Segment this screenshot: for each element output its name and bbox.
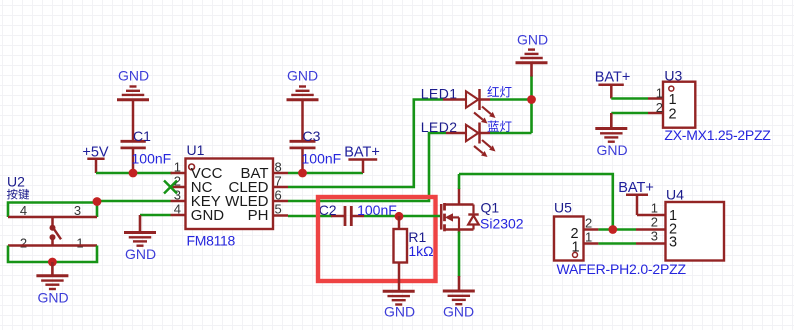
U1 pin1 marker circle xyxy=(189,164,195,170)
svg-text:U5: U5 xyxy=(554,200,572,216)
U1 pin name GND xyxy=(191,207,225,224)
svg-text:4: 4 xyxy=(174,202,181,217)
power port BAT+ label (U4) xyxy=(618,180,654,196)
svg-text:1: 1 xyxy=(656,86,663,101)
ground symbol at U1 pin4 xyxy=(124,233,156,246)
svg-text:BAT+: BAT+ xyxy=(595,70,631,86)
U3 inside pin number 2 xyxy=(669,107,677,123)
net label GND at U3 xyxy=(596,142,627,158)
ground symbol at U3 xyxy=(595,129,627,142)
ground symbol above C1 (flipped) xyxy=(117,87,149,100)
net label GND below U2 xyxy=(37,290,68,306)
U1 designator text xyxy=(187,142,205,158)
wire U2 bottom loop pins 2-1 xyxy=(8,246,97,263)
U1 pin number 7 xyxy=(275,174,282,189)
svg-text:3: 3 xyxy=(669,235,677,251)
U1 pin name PH xyxy=(248,207,269,224)
connector U5 name WAFER-PH2.0-2PZZ xyxy=(557,261,687,277)
net label GND below Q1 xyxy=(443,304,474,320)
U4 pin number 3 label xyxy=(651,229,658,244)
U4 inside pin number 1 xyxy=(669,208,677,224)
U2 pin number 4 xyxy=(20,203,27,218)
U1 pin number 5 xyxy=(275,202,282,217)
U2 name text 按键 xyxy=(7,189,29,200)
R1 designator text xyxy=(408,229,426,245)
U1 part name FM8118 xyxy=(187,233,236,249)
junction C1 on +5V wire xyxy=(129,169,138,178)
svg-text:4: 4 xyxy=(20,203,27,218)
svg-text:PH: PH xyxy=(248,207,269,224)
power port BAT+ label (U3) xyxy=(595,70,631,86)
svg-text:C3: C3 xyxy=(303,128,321,144)
C3 value 100nF xyxy=(302,151,342,167)
U1 pin number 4 xyxy=(174,202,181,217)
connector U4 body xyxy=(666,202,725,261)
wire U1 BAT pin 8 to BAT+ port xyxy=(288,172,363,175)
U4 pin 3 stub xyxy=(636,242,666,245)
svg-text:1: 1 xyxy=(669,92,677,108)
svg-text:1: 1 xyxy=(174,160,181,175)
U1 pin 5 stub xyxy=(273,214,288,217)
U1 pin number 8 xyxy=(275,160,282,175)
U1 pin name WLED xyxy=(225,193,269,210)
C1 designator text xyxy=(133,128,151,144)
net label GND above C3 xyxy=(287,68,318,84)
junction R1 top node xyxy=(395,212,404,221)
U4 pin number 1 label xyxy=(651,201,658,216)
svg-text:5: 5 xyxy=(275,202,282,217)
U5 pin 2 stub xyxy=(584,228,599,231)
U4 designator text xyxy=(666,187,684,203)
C2 value 100nF xyxy=(357,202,397,218)
LED LED2 designator text xyxy=(421,119,458,135)
U1 pin name KEY xyxy=(191,193,221,210)
svg-text:2: 2 xyxy=(651,215,658,230)
power port BAT+ bar (U1) xyxy=(348,160,377,174)
svg-text:2: 2 xyxy=(656,100,663,115)
U3 pin 1 stub xyxy=(648,97,663,100)
svg-text:7: 7 xyxy=(275,174,282,189)
net label GND above C1 xyxy=(118,68,149,84)
wire Q1 source to ground xyxy=(458,232,461,278)
svg-text:GND: GND xyxy=(118,68,149,84)
U1 pin 2 stub xyxy=(171,186,186,189)
capacitor C3 xyxy=(290,100,316,174)
svg-text:Si2302: Si2302 xyxy=(480,216,524,232)
svg-text:2: 2 xyxy=(20,236,27,251)
U1 pin name CLED xyxy=(228,179,268,196)
ground symbol below R1 xyxy=(383,291,415,304)
capacitor C1 xyxy=(121,100,146,174)
power port +5V label xyxy=(82,145,109,161)
ground symbol below U2 xyxy=(36,276,68,289)
svg-text:1: 1 xyxy=(76,236,83,251)
U1 pin number 3 xyxy=(174,188,181,203)
ground stem at U1 pin4 xyxy=(139,215,142,233)
wire U1 CLED pin 7 to LED1 xyxy=(288,100,443,188)
U3 pin number 1 label xyxy=(656,86,663,101)
transistor Q1 Si2302 xyxy=(441,188,479,233)
wire U2 to ground stem xyxy=(51,262,54,276)
svg-text:3: 3 xyxy=(74,203,81,218)
ground stem below Q1 xyxy=(458,276,461,291)
capacitor C2 xyxy=(331,206,364,226)
component U2 designator text xyxy=(7,174,25,190)
wire U5 pin1 to U4 pin3 xyxy=(598,242,636,245)
no-connect X on U1 pin 2 xyxy=(164,181,177,194)
U2 pin number 3 xyxy=(74,203,81,218)
U1 pin 7 stub xyxy=(273,186,288,189)
U1 pin 1 stub xyxy=(171,172,186,175)
svg-text:1: 1 xyxy=(585,230,592,245)
svg-text:100nF: 100nF xyxy=(302,151,342,167)
U5 pin number 2 label xyxy=(585,216,592,231)
U2 pin number 2 xyxy=(20,236,27,251)
junction connector node xyxy=(608,225,617,234)
U3 pin number 2 label xyxy=(656,100,663,115)
wire U1 WLED pin 6 to LED2 xyxy=(288,133,446,201)
svg-text:U4: U4 xyxy=(666,187,684,203)
ground stem at U3 xyxy=(610,113,613,129)
Q1 designator text xyxy=(481,200,500,216)
U5 pin 1 stub xyxy=(584,242,599,245)
svg-text:WAFER-PH2.0-2PZZ: WAFER-PH2.0-2PZZ xyxy=(557,261,687,277)
wire U1 PH pin 5 to C2 xyxy=(288,215,332,218)
svg-text:2: 2 xyxy=(669,107,677,123)
svg-text:2: 2 xyxy=(585,216,592,231)
C2 designator text xyxy=(319,202,337,218)
U1 pin 3 stub xyxy=(171,200,186,203)
U1 pin name BAT xyxy=(240,165,268,182)
U3 pin 2 stub xyxy=(648,112,663,115)
svg-text:GND: GND xyxy=(191,207,225,224)
U2 pin bar pins 4-3 xyxy=(8,216,97,219)
wire U2 top loop pins 4-3 xyxy=(8,203,97,218)
svg-text:Q1: Q1 xyxy=(481,200,500,216)
U5 inside pin number 1 xyxy=(572,240,580,256)
U1 pin number 1 xyxy=(174,160,181,175)
net label 红灯 xyxy=(487,86,511,98)
net label GND below R1 xyxy=(384,304,415,320)
wire LED2 cathode to GND node xyxy=(490,132,532,135)
U4 pin 2 stub xyxy=(636,228,666,231)
LED LED1 designator text xyxy=(421,86,458,102)
svg-text:1: 1 xyxy=(651,201,658,216)
U1 pin 4 stub xyxy=(171,214,186,217)
U2 pin bar pins 2-1 xyxy=(8,244,97,247)
power port BAT+ bar (U4) xyxy=(626,195,666,215)
svg-text:GND: GND xyxy=(517,32,548,48)
U3 pin1 marker circle xyxy=(669,86,674,91)
wire U5 pin2 to junction xyxy=(598,228,636,231)
R1 value 1kΩ xyxy=(408,243,433,259)
junction U2 bottom to GND xyxy=(48,258,57,267)
connector U3 name ZX-MX1.25-2PZZ xyxy=(664,127,771,143)
svg-text:U2: U2 xyxy=(7,174,25,190)
power port +5V bar xyxy=(87,159,104,173)
svg-text:GND: GND xyxy=(287,68,318,84)
svg-text:8: 8 xyxy=(275,160,282,175)
junction C3 on BAT wire xyxy=(298,169,307,178)
wire U1 GND pin 4 to ground xyxy=(140,214,171,217)
svg-text:GND: GND xyxy=(596,142,627,158)
U1 pin number 2 xyxy=(174,174,181,189)
svg-text:FM8118: FM8118 xyxy=(187,233,236,249)
net label GND above LEDs xyxy=(517,32,548,48)
junction LED cathodes xyxy=(527,95,536,104)
junction U2 pin3 to KEY net xyxy=(93,197,102,206)
U1 pin name VCC xyxy=(191,165,223,182)
diode LED2 xyxy=(446,123,490,144)
LED1 emission arrows xyxy=(474,107,496,124)
wire U2 top corner riser xyxy=(96,201,99,204)
U2 switch mechanism xyxy=(50,217,62,246)
U4 pin number 2 label xyxy=(651,215,658,230)
wire C2 to Q1 gate xyxy=(364,215,442,218)
Q1 part name Si2302 xyxy=(480,216,524,232)
ground stem above LEDs xyxy=(530,63,533,77)
wire U3 pin2 to GND xyxy=(611,112,648,115)
connector U3 body xyxy=(663,82,695,128)
svg-text:GND: GND xyxy=(125,246,156,262)
svg-text:C1: C1 xyxy=(133,128,151,144)
U5 pin number 1 label xyxy=(585,230,592,245)
wire Q1 drain to connector node xyxy=(459,174,613,230)
wire Q1 drain riser xyxy=(458,174,461,189)
U4 inside pin number 3 xyxy=(669,235,677,251)
LED2 emission arrows xyxy=(474,140,496,157)
U4 inside pin number 2 xyxy=(669,222,677,238)
C1 value 100nF xyxy=(132,151,172,167)
svg-text:1kΩ: 1kΩ xyxy=(408,243,433,259)
selection highlight rectangle xyxy=(318,197,436,281)
resistor R1 xyxy=(394,216,408,292)
ground symbol above C3 (flipped) xyxy=(287,87,319,100)
U1 pin number 6 xyxy=(275,188,282,203)
diode LED1 xyxy=(443,89,490,110)
net label GND at U1 pin4 xyxy=(125,246,156,262)
svg-text:100nF: 100nF xyxy=(132,151,172,167)
power port BAT+ label (U1) xyxy=(344,145,380,161)
ground symbol below Q1 xyxy=(443,291,475,304)
wire U2 pin3 to U1 KEY pin 3 xyxy=(97,200,171,203)
svg-text:6: 6 xyxy=(275,188,282,203)
U1 pin 8 stub xyxy=(273,172,288,175)
U5 inside pin number 2 xyxy=(571,226,579,242)
svg-text:GND: GND xyxy=(384,304,415,320)
U1 pin name NC xyxy=(191,179,213,196)
svg-text:GND: GND xyxy=(443,304,474,320)
svg-text:U3: U3 xyxy=(664,68,682,84)
svg-text:ZX-MX1.25-2PZZ: ZX-MX1.25-2PZZ xyxy=(664,127,771,143)
power port BAT+ bar (U3) xyxy=(598,85,623,99)
U3 designator text xyxy=(664,68,682,84)
C3 designator text xyxy=(303,128,321,144)
svg-text:U1: U1 xyxy=(187,142,205,158)
U2 pin number 1 xyxy=(76,236,83,251)
wire BAT+ to U3 pin1 xyxy=(611,97,648,100)
svg-text:GND: GND xyxy=(37,290,68,306)
U5 pin1 marker circle xyxy=(573,252,578,257)
wire LED cathode riser xyxy=(530,76,533,134)
U1 pin 6 stub xyxy=(273,200,288,203)
IC U1 body xyxy=(186,159,274,230)
svg-text:C2: C2 xyxy=(319,202,337,218)
svg-text:3: 3 xyxy=(651,229,658,244)
svg-text:BAT+: BAT+ xyxy=(344,145,380,161)
U5 designator text xyxy=(554,200,572,216)
connector U5 body xyxy=(554,217,584,261)
net label 蓝灯 xyxy=(488,121,512,133)
wire LED1 cathode to GND node xyxy=(490,98,532,101)
ground symbol above LEDs (flipped) xyxy=(516,50,548,63)
U3 inside pin number 1 xyxy=(669,92,677,108)
wire +5V to U1 VCC pin 1 xyxy=(96,172,172,175)
